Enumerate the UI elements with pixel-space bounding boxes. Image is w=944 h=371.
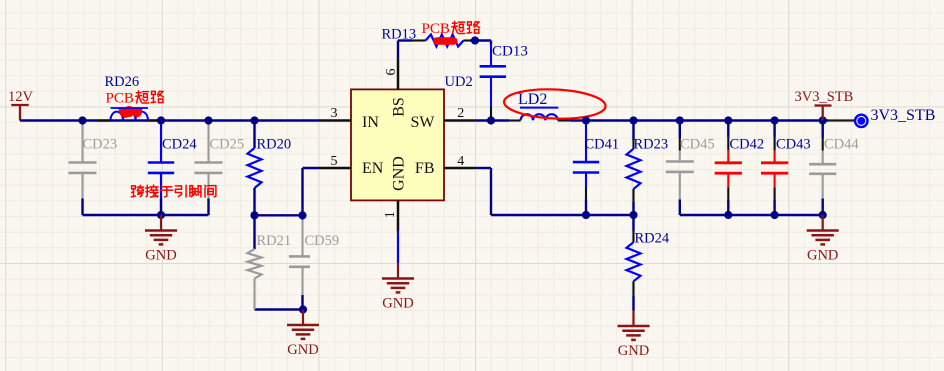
junction: CD59 bottom / GND: [299, 305, 307, 313]
wire RD21 bottom to CD59 bottom: [255, 308, 304, 310]
svg-text:CD13: CD13: [492, 44, 528, 60]
capacitor CD59: [301, 215, 303, 219]
svg-text:GND: GND: [618, 343, 649, 359]
svg-text:CD43: CD43: [776, 137, 811, 153]
svg-text:GND: GND: [382, 295, 413, 311]
svg-text:PCB: PCB: [422, 21, 450, 37]
svg-text:GND: GND: [807, 247, 838, 263]
pin 2 SW: [444, 119, 476, 122]
lead LD2 right: [558, 119, 570, 121]
wire BS top horizontal: [398, 39, 412, 41]
red ellipse annotation around LD2: [503, 87, 606, 120]
svg-text:2: 2: [457, 106, 464, 121]
junction: CD25 at 12V rail: [204, 116, 212, 124]
lead CD13 top: [490, 41, 492, 45]
svg-text:FB: FB: [415, 160, 435, 177]
svg-text:CD45: CD45: [680, 137, 715, 153]
capacitor CD45: [679, 121, 681, 139]
resistor RD13 (PCB short): [426, 35, 464, 47]
junction: EN/CD59 node: [298, 211, 306, 219]
svg-text:6: 6: [384, 69, 399, 76]
junction: RD20 at 12V rail: [250, 116, 258, 124]
svg-text:SW: SW: [411, 114, 436, 131]
power port 3V3_STB bar: [815, 104, 832, 106]
junction: CD43 at rail: [771, 116, 779, 124]
wire left caps bottom rail: [83, 214, 209, 216]
capacitor CD25: [207, 121, 209, 125]
capacitor CD43: [773, 121, 775, 138]
wire EN net horizontal: [255, 214, 303, 216]
svg-text:CD42: CD42: [730, 137, 765, 153]
junction BS node: [471, 36, 479, 44]
wire pin1 to ground: [397, 232, 399, 263]
capacitor CD44: [822, 121, 824, 139]
wire FB bottom rail: [491, 214, 634, 216]
wire 3V3 output rail: [570, 119, 828, 121]
ground GND under IC pin1: [397, 263, 399, 279]
svg-text:3: 3: [331, 106, 338, 121]
resistor RD20: [253, 121, 255, 149]
lead RD13 left: [412, 39, 426, 41]
svg-text:RD24: RD24: [635, 231, 670, 247]
svg-text:CD25: CD25: [210, 137, 245, 153]
resistor RD21: [253, 215, 255, 249]
junction: CD41 at FB rail: [582, 211, 590, 219]
pin 6 BS: [397, 58, 400, 89]
pin 3 IN: [320, 119, 352, 122]
junction: RD20/RD21 node: [250, 211, 258, 219]
capacitor CD24: [160, 121, 162, 125]
svg-text:4: 4: [457, 154, 464, 169]
svg-text:BS: BS: [391, 97, 408, 117]
wire EN net vertical: [301, 168, 303, 215]
svg-text:RD20: RD20: [257, 137, 292, 153]
wire to port: [827, 119, 855, 121]
wire SW pin to LD2: [476, 119, 510, 121]
capacitor CD41: [585, 121, 587, 125]
svg-text:CD44: CD44: [824, 137, 859, 153]
svg-text:1: 1: [383, 211, 398, 218]
junction: CD42 bottom: [724, 211, 732, 219]
resistor RD26 (PCB-short jumper): [97, 119, 111, 121]
ground GND under CD59: [302, 310, 304, 326]
pin 4 FB: [444, 167, 476, 170]
IC UD2 body: [351, 89, 444, 200]
svg-text:GND: GND: [287, 342, 318, 358]
wire BS vertical from pin 6: [397, 41, 399, 59]
svg-text:3V3_STB: 3V3_STB: [871, 107, 936, 124]
svg-text:RD21: RD21: [257, 233, 292, 249]
wire CD45 bottom corner: [679, 199, 681, 215]
junction: RD23 at SW rail: [629, 116, 637, 124]
junction: RD23/RD24 FB node: [629, 211, 637, 219]
svg-text:IN: IN: [362, 114, 379, 131]
wire output ground rail: [680, 214, 823, 216]
wire EN to pin 5: [303, 167, 320, 169]
ground GND output: [822, 215, 824, 231]
capacitor CD42: [727, 121, 729, 138]
wire FB from pin 4: [476, 167, 491, 169]
junction: CD24 bottom / GND: [157, 211, 165, 219]
svg-text:CD23: CD23: [83, 137, 118, 153]
svg-text:CD41: CD41: [585, 137, 620, 153]
junction: CD42 at rail: [724, 116, 732, 124]
svg-text:3V3_STB: 3V3_STB: [795, 89, 854, 105]
inductor LD2: [520, 107, 558, 109]
label bridge-across-pins note: [131, 185, 143, 196]
svg-text:5: 5: [331, 154, 338, 169]
capacitor CD13: [480, 65, 506, 68]
resistor RD23: [632, 121, 634, 141]
svg-text:UD2: UD2: [445, 74, 473, 90]
wire 12V rail: [20, 119, 320, 121]
svg-text:CD59: CD59: [305, 233, 340, 249]
svg-text:GND: GND: [391, 156, 408, 191]
svg-text:RD26: RD26: [105, 74, 140, 90]
svg-text:EN: EN: [362, 160, 384, 177]
svg-text:RD23: RD23: [634, 137, 669, 153]
svg-text:GND: GND: [145, 247, 176, 263]
resistor RD24: [632, 215, 634, 231]
lead LD2 left: [509, 119, 520, 121]
svg-text:LD2: LD2: [518, 91, 547, 108]
junction: CD24 at 12V rail: [157, 116, 165, 124]
junction: CD45 at rail: [676, 116, 684, 124]
ground GND under CD24: [160, 215, 162, 231]
junction: CD41 at SW rail: [582, 116, 590, 124]
ground GND under RD24: [632, 311, 634, 327]
svg-text:CD24: CD24: [162, 137, 197, 153]
junction SW/CD13: [487, 116, 495, 124]
pin 1 GND: [397, 200, 400, 231]
svg-text:RD13: RD13: [382, 27, 417, 43]
port 3V3_STB circle: [855, 115, 867, 127]
capacitor CD23: [81, 121, 83, 125]
junction: CD23 at 12V rail: [78, 116, 86, 124]
wire RD13 to CD13: [470, 39, 491, 41]
wire FB vertical: [490, 168, 492, 215]
power port 12V bar: [11, 104, 28, 106]
svg-text:12V: 12V: [8, 89, 34, 105]
pin 5 EN: [320, 167, 352, 170]
junction: CD44 / power at rail: [819, 116, 827, 124]
lead RD13 right: [464, 39, 471, 41]
junction: CD43 bottom: [771, 211, 779, 219]
junction: CD44 bottom / GND: [819, 211, 827, 219]
svg-text:PCB: PCB: [106, 91, 134, 107]
